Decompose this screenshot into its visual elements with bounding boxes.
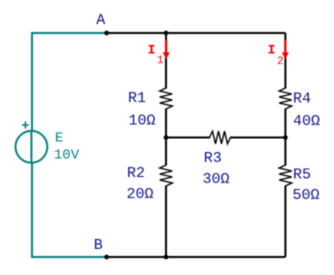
svg-text:30Ω: 30Ω [203,171,230,188]
svg-text:40Ω: 40Ω [293,113,320,130]
svg-text:R1: R1 [128,90,146,107]
svg-text:R5: R5 [293,167,311,184]
svg-text:A: A [96,12,105,29]
svg-text:R4: R4 [293,90,311,107]
svg-text:10Ω: 10Ω [129,113,156,130]
svg-text:B: B [94,237,103,254]
svg-text:10V: 10V [54,148,80,164]
svg-text:20Ω: 20Ω [127,186,154,203]
svg-text:R3: R3 [204,150,222,167]
svg-text:1: 1 [157,55,164,67]
svg-text:I: I [268,43,276,58]
svg-text:I: I [148,43,156,58]
svg-text:E: E [55,131,63,147]
svg-text:2: 2 [277,56,284,68]
svg-text:50Ω: 50Ω [293,187,320,204]
svg-text:R2: R2 [127,165,145,182]
